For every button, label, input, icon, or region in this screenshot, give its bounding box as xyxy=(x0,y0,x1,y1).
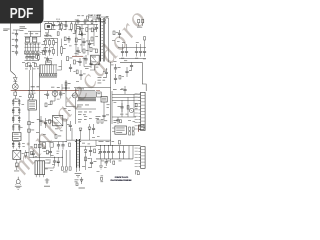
wire xyxy=(104,22,106,24)
label xyxy=(75,180,79,186)
resistor R119 xyxy=(129,127,134,135)
label xyxy=(72,94,74,97)
wire xyxy=(96,90,100,92)
wire xyxy=(14,90,16,93)
capacitor C167 xyxy=(118,30,121,38)
label xyxy=(98,149,101,154)
label xyxy=(30,147,37,149)
ground xyxy=(99,159,103,169)
resistor R150 xyxy=(73,70,78,74)
optocoupler U401 xyxy=(53,115,63,125)
wire xyxy=(90,65,95,70)
resistor R105 xyxy=(53,39,58,47)
capacitor C127 xyxy=(125,48,128,57)
label xyxy=(101,176,104,183)
wire xyxy=(129,146,133,159)
wire xyxy=(140,28,142,44)
resistor R143 xyxy=(135,103,138,108)
diode D108 xyxy=(90,48,95,52)
capacitor C169 xyxy=(29,63,32,71)
label xyxy=(77,105,89,108)
label xyxy=(78,118,87,121)
diode D106 xyxy=(91,20,93,25)
label D910 xyxy=(28,93,36,95)
thermistor TH101 xyxy=(14,159,19,171)
svg-text:LD7575: LD7575 xyxy=(78,89,84,91)
transistor Q104 xyxy=(129,108,133,112)
label xyxy=(99,140,115,143)
label xyxy=(96,116,101,119)
capacitor C163 xyxy=(123,86,126,94)
label xyxy=(112,40,120,42)
node J1 xyxy=(57,21,96,22)
capacitor C154 xyxy=(58,22,61,29)
capacitor C103 xyxy=(12,32,18,38)
capacitor C114 xyxy=(12,124,20,131)
wire xyxy=(110,145,112,147)
fuse F101 xyxy=(52,19,61,26)
capacitor C119 xyxy=(78,33,86,36)
resistor R148 xyxy=(26,63,28,67)
capacitor C112 xyxy=(12,107,20,114)
diode D104 xyxy=(29,91,31,100)
capacitor C101 xyxy=(52,22,56,30)
label xyxy=(114,101,117,104)
resistor R145 xyxy=(144,37,146,40)
wire xyxy=(88,16,108,18)
diode D114 xyxy=(79,177,85,188)
label xyxy=(84,116,92,119)
wire xyxy=(119,58,146,60)
label xyxy=(31,85,40,88)
wire xyxy=(40,156,63,158)
resistor network RN101 xyxy=(24,43,39,54)
transistor Q101 xyxy=(12,81,18,89)
label xyxy=(78,111,92,114)
capacitor C137 xyxy=(89,146,92,156)
label xyxy=(114,120,122,123)
capacitor C102 xyxy=(64,22,67,30)
wire xyxy=(84,56,91,66)
label xyxy=(82,166,91,168)
wire xyxy=(115,62,117,64)
wire xyxy=(43,48,45,53)
wire xyxy=(44,21,106,23)
capacitor C123 xyxy=(114,64,121,73)
label xyxy=(59,92,62,94)
wire xyxy=(29,99,31,101)
connector CON201 xyxy=(135,92,146,130)
wire xyxy=(144,40,146,48)
resistor R132 xyxy=(74,31,82,35)
label xyxy=(51,87,60,88)
label xyxy=(48,162,60,164)
wire xyxy=(142,78,146,91)
capacitor C135 xyxy=(118,146,121,159)
resistor R125 xyxy=(50,143,53,148)
label xyxy=(113,88,123,91)
ic IC104 xyxy=(101,96,107,102)
resistor R123 xyxy=(55,135,61,139)
capacitor C141 xyxy=(57,142,60,150)
capacitor C148 xyxy=(78,58,81,66)
wire xyxy=(112,99,140,101)
capacitor C140 xyxy=(44,118,47,128)
wire xyxy=(108,18,110,62)
resistor R136 xyxy=(57,32,59,36)
resistor R130 xyxy=(67,57,73,61)
label xyxy=(98,76,107,79)
label xyxy=(143,58,146,61)
capacitor C104 xyxy=(12,38,18,44)
resistor R144 xyxy=(119,75,124,79)
label IC2 xyxy=(78,89,84,91)
diode D110 xyxy=(138,125,140,132)
resistor R127 xyxy=(34,144,41,148)
capacitor C153 xyxy=(53,157,56,166)
capacitor C111 xyxy=(12,99,20,106)
capacitor C156 xyxy=(67,36,70,43)
wire xyxy=(92,19,100,22)
wire xyxy=(25,37,41,43)
label xyxy=(46,154,54,156)
label xyxy=(25,58,34,59)
capacitor C146 xyxy=(95,24,98,32)
diode D116 xyxy=(26,151,33,154)
label xyxy=(25,68,36,71)
wire xyxy=(66,139,111,141)
label xyxy=(82,143,90,144)
label xyxy=(46,159,50,162)
resistor R128 xyxy=(44,178,50,187)
diode D103 xyxy=(13,75,17,81)
capacitor C162 xyxy=(116,117,119,124)
label xyxy=(46,38,54,39)
svg-text:F101: F101 xyxy=(56,19,60,21)
capacitor C138 xyxy=(90,158,97,168)
wire xyxy=(32,67,34,91)
capacitor C113 xyxy=(12,116,20,123)
label xyxy=(76,80,79,83)
label xyxy=(57,98,60,101)
wire xyxy=(45,166,54,168)
label xyxy=(44,46,54,49)
capacitor C152 xyxy=(143,48,146,57)
diode D101 xyxy=(38,54,40,61)
resistor R114 xyxy=(91,37,93,41)
wire xyxy=(10,75,12,91)
capacitor C144 xyxy=(44,33,51,37)
transistor Q102 xyxy=(52,91,58,98)
wire xyxy=(110,62,112,146)
label xyxy=(92,136,100,137)
capacitor C117 xyxy=(75,19,80,25)
resistor network RN102 xyxy=(40,65,57,76)
wire xyxy=(62,150,70,166)
label xyxy=(20,26,27,30)
label xyxy=(122,41,139,44)
wire xyxy=(51,96,55,101)
wire xyxy=(40,64,58,66)
resistor R126 xyxy=(61,167,71,173)
resistor R146 xyxy=(50,101,52,104)
wire xyxy=(118,47,146,49)
capacitor C150 xyxy=(67,121,72,131)
capacitor C107 xyxy=(25,54,28,60)
label xyxy=(111,64,114,67)
resistor R149 xyxy=(34,63,36,67)
resistor R137 xyxy=(40,51,45,55)
wire xyxy=(44,39,58,56)
resistor R141 xyxy=(69,143,71,147)
capacitor C158 xyxy=(32,150,35,158)
label xyxy=(59,29,72,30)
diode D112 xyxy=(88,124,91,140)
label xyxy=(22,62,35,63)
label xyxy=(42,44,45,51)
capacitor C159 xyxy=(49,148,52,157)
regulator IC302 xyxy=(139,125,144,130)
label xyxy=(77,14,84,17)
diode D113 xyxy=(79,128,82,140)
relay RL101 xyxy=(25,37,29,42)
resistor R116 xyxy=(97,92,102,97)
wire xyxy=(123,44,141,48)
wire xyxy=(112,116,136,118)
label xyxy=(44,58,52,59)
label xyxy=(75,52,81,54)
label xyxy=(45,169,53,171)
label xyxy=(55,129,63,132)
label xyxy=(64,108,71,111)
wire xyxy=(96,145,140,147)
rectifier BD102 xyxy=(12,133,21,141)
capacitor C129 xyxy=(139,48,142,57)
wire xyxy=(85,152,87,170)
resistor R104 xyxy=(49,39,51,47)
wire xyxy=(57,60,62,70)
label xyxy=(121,88,124,91)
transistor Q103 xyxy=(72,93,77,98)
wire xyxy=(120,62,142,78)
wire xyxy=(74,87,100,89)
wire xyxy=(95,140,97,146)
capacitor C118 xyxy=(76,26,84,30)
capacitor C161 xyxy=(105,159,108,166)
label xyxy=(101,160,122,163)
capacitor C151 xyxy=(92,124,95,134)
label xyxy=(22,143,25,147)
label xyxy=(114,60,128,61)
resistor R140 xyxy=(43,150,48,154)
svg-text:PDF: PDF xyxy=(10,5,34,22)
label xyxy=(98,82,102,85)
label xyxy=(37,67,39,70)
resistor R113 xyxy=(75,38,81,42)
resistor R134 xyxy=(45,103,51,107)
wire xyxy=(11,90,79,92)
resistor R124 xyxy=(42,143,46,149)
diode D109 xyxy=(137,19,144,27)
filter FL101 xyxy=(45,22,52,34)
label xyxy=(97,170,100,173)
watermark xyxy=(5,4,152,180)
capacitor C155 xyxy=(46,57,49,63)
resistor R121 xyxy=(94,149,96,153)
resistor R138 xyxy=(64,37,69,41)
svg-text:PHILCO PH21M LCD S2D 202: PHILCO PH21M LCD S2D 202 xyxy=(111,180,133,182)
wire xyxy=(76,23,98,25)
svg-text:FONTE TV LCD: FONTE TV LCD xyxy=(115,177,129,179)
capacitor C132 xyxy=(103,146,106,159)
diode D111 xyxy=(84,146,87,152)
node J2 xyxy=(28,90,55,91)
capacitor C134 xyxy=(111,146,114,159)
ground xyxy=(75,174,82,178)
capacitor C124 xyxy=(114,74,117,84)
capacitor C108 xyxy=(31,54,34,60)
capacitor C128 xyxy=(135,48,138,57)
connector CN101 xyxy=(13,149,21,160)
resistor R106 xyxy=(61,39,66,56)
label xyxy=(25,32,39,35)
label xyxy=(25,43,39,46)
label xyxy=(63,92,65,95)
wire xyxy=(40,141,67,143)
ic IC301 xyxy=(112,126,127,134)
capacitor C170 xyxy=(79,70,85,80)
capacitor C116 xyxy=(62,84,70,91)
diode D107 xyxy=(91,28,97,32)
connector CON202 xyxy=(135,147,146,169)
capacitor C149 xyxy=(44,91,49,99)
PDF badge xyxy=(0,0,44,24)
label xyxy=(96,66,99,69)
capacitor C120 xyxy=(82,38,88,46)
wire xyxy=(46,120,53,122)
bridge BD101 xyxy=(32,37,36,42)
resistor R133 xyxy=(73,60,79,64)
wire xyxy=(100,87,111,89)
capacitor C157 xyxy=(83,55,88,64)
transformer T103 xyxy=(75,139,81,168)
wire xyxy=(75,88,77,124)
diode D117 xyxy=(25,150,27,159)
capacitor C121 xyxy=(76,47,79,55)
capacitor C110 xyxy=(48,48,51,56)
plug P101 xyxy=(15,177,22,189)
resistor R142 xyxy=(113,161,115,164)
ic IC103 xyxy=(78,91,95,100)
capacitor C126 xyxy=(121,48,124,57)
transformer T101 xyxy=(96,18,109,62)
wire xyxy=(25,53,41,55)
resistor R117 xyxy=(97,120,107,124)
wire xyxy=(131,58,133,62)
capacitor C160 xyxy=(57,157,60,166)
capacitor C131 xyxy=(99,146,102,159)
label xyxy=(107,104,110,107)
capacitor C136 xyxy=(122,146,125,159)
wire xyxy=(39,65,41,161)
wire xyxy=(40,76,58,78)
node J5 xyxy=(62,141,67,158)
optocoupler U201 xyxy=(91,55,100,65)
capacitor C143 xyxy=(28,54,31,60)
label xyxy=(75,44,83,45)
wire xyxy=(76,108,97,110)
wire xyxy=(76,24,94,56)
label xyxy=(12,144,24,154)
node J6 xyxy=(39,157,55,158)
resistor R120 xyxy=(118,141,120,144)
wire xyxy=(80,145,96,147)
resistor R109 xyxy=(28,129,35,132)
capacitor C145 xyxy=(69,64,72,72)
label xyxy=(36,132,46,135)
label xyxy=(12,111,23,128)
capacitor C122 xyxy=(102,112,109,120)
wire xyxy=(28,22,41,37)
label xyxy=(78,113,86,116)
label xyxy=(19,96,24,105)
diode D102 xyxy=(53,48,55,56)
label xyxy=(45,35,53,38)
wire xyxy=(11,24,15,76)
capacitor C109 xyxy=(44,48,47,56)
ic IC102 xyxy=(28,100,36,110)
resistor R108 xyxy=(28,122,35,125)
varistor RV101 xyxy=(75,22,77,33)
resistor R107 xyxy=(14,92,17,99)
label xyxy=(3,29,10,31)
diode D115 xyxy=(95,49,97,53)
label xyxy=(78,121,81,124)
wire xyxy=(13,30,20,32)
wire xyxy=(136,171,140,175)
resistor R103 xyxy=(43,39,46,47)
resistor R112 xyxy=(86,28,92,32)
wire xyxy=(29,70,31,91)
label xyxy=(59,65,62,68)
label xyxy=(85,67,89,70)
capacitor C139 xyxy=(37,116,43,126)
wire xyxy=(29,150,40,157)
label xyxy=(98,79,106,82)
label xyxy=(104,166,107,169)
wire xyxy=(112,93,140,95)
diode D105 xyxy=(32,91,34,100)
capacitor C147 xyxy=(88,40,91,48)
wire xyxy=(111,91,113,124)
node J4 xyxy=(100,145,113,146)
resistor R101 xyxy=(61,22,67,31)
wire xyxy=(25,46,41,48)
wire xyxy=(77,168,80,172)
label xyxy=(91,36,98,44)
wire xyxy=(110,159,112,163)
wire xyxy=(96,158,133,160)
wire xyxy=(45,159,50,163)
resistor R131 xyxy=(86,16,88,19)
resistor R115 xyxy=(83,49,89,53)
capacitor C168 xyxy=(103,68,108,78)
capacitor C164 xyxy=(130,62,133,70)
label xyxy=(64,44,72,46)
wire xyxy=(87,50,89,55)
label xyxy=(121,57,138,60)
capacitor C166 xyxy=(59,91,62,99)
